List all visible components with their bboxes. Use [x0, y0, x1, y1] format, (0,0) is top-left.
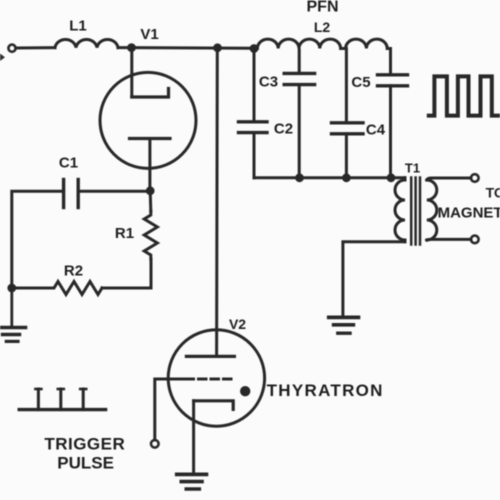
wire primary bottom to ground	[343, 242, 405, 316]
V1 anode lead	[130, 48, 133, 97]
svg-text:R1: R1	[115, 225, 134, 242]
capacitor C2	[239, 120, 268, 123]
capacitor C5	[378, 73, 408, 76]
svg-text:PULSE: PULSE	[57, 454, 114, 473]
V1 cathode	[130, 137, 171, 140]
svg-text:C5: C5	[351, 74, 370, 91]
junction	[387, 173, 396, 182]
terminal	[471, 236, 479, 244]
V2 anode plate	[186, 355, 234, 358]
node cathode/C1/R1	[146, 186, 155, 195]
svg-text:C3: C3	[259, 74, 278, 91]
svg-text:T1: T1	[405, 161, 420, 176]
tube V2 thyratron	[168, 330, 264, 426]
wire	[16, 46, 55, 49]
wire	[253, 133, 256, 178]
wire	[118, 46, 132, 49]
wire top rail	[132, 46, 255, 50]
junction	[213, 43, 222, 52]
wire	[345, 134, 348, 178]
svg-text:C2: C2	[274, 121, 293, 138]
svg-text:TRIGGER: TRIGGER	[44, 435, 125, 454]
svg-text:MAGNET: MAGNET	[438, 205, 500, 222]
V2 cathode	[194, 401, 234, 410]
resistor R2	[12, 282, 102, 295]
svg-text:L2: L2	[314, 19, 331, 35]
wire	[389, 86, 392, 178]
wire secondary top	[427, 178, 471, 180]
svg-text:C4: C4	[366, 122, 386, 139]
svg-text:L1: L1	[69, 18, 87, 35]
T1 core	[410, 178, 413, 245]
wire	[78, 190, 150, 193]
V2 cathode lead	[192, 401, 195, 472]
ground	[177, 472, 207, 476]
svg-text:C1: C1	[59, 155, 78, 172]
edge mark	[0, 54, 5, 62]
svg-text:PFN: PFN	[307, 0, 339, 16]
svg-text:TO: TO	[486, 185, 500, 201]
tube V1	[100, 72, 196, 168]
svg-text:V2: V2	[229, 316, 246, 332]
wire	[298, 85, 301, 178]
V1 cathode lead	[148, 139, 151, 191]
wire	[12, 191, 64, 288]
ground	[10, 288, 13, 327]
V1 anode plate	[132, 89, 169, 98]
wire	[102, 259, 151, 288]
transformer T1 primary	[395, 178, 405, 242]
wire	[149, 191, 153, 211]
junction	[342, 173, 351, 182]
V2 grid dashed	[186, 378, 231, 381]
ground	[329, 315, 359, 319]
inductor L2	[254, 39, 391, 48]
wire PFN left branch	[253, 49, 256, 122]
junction	[295, 173, 304, 182]
gas dot	[240, 386, 250, 396]
capacitor C3	[284, 72, 314, 75]
wire C4 branch	[345, 49, 348, 123]
node V1	[127, 43, 136, 52]
junction PFN	[250, 44, 259, 53]
wire secondary bottom	[427, 238, 471, 242]
svg-text:R2: R2	[64, 263, 83, 280]
trigger pulse waveform	[19, 408, 105, 411]
svg-text:THYRATRON: THYRATRON	[267, 381, 384, 400]
capacitor C4	[332, 121, 364, 124]
terminal	[471, 174, 479, 182]
T1 secondary	[427, 180, 437, 240]
resistor R1	[144, 211, 157, 259]
waveform symbol	[429, 76, 500, 115]
capacitor C1	[76, 180, 79, 208]
node ground/R2/C1	[7, 284, 16, 293]
V2 grid lead	[155, 379, 186, 440]
inductor L1	[55, 39, 118, 47]
wire PFN bottom rail	[254, 176, 405, 179]
terminal	[151, 440, 159, 448]
input terminal	[8, 45, 15, 52]
wire C3 branch	[298, 50, 301, 73]
wire V2 anode	[215, 48, 219, 357]
wire C5 branch	[389, 49, 392, 75]
svg-text:V1: V1	[140, 26, 158, 43]
